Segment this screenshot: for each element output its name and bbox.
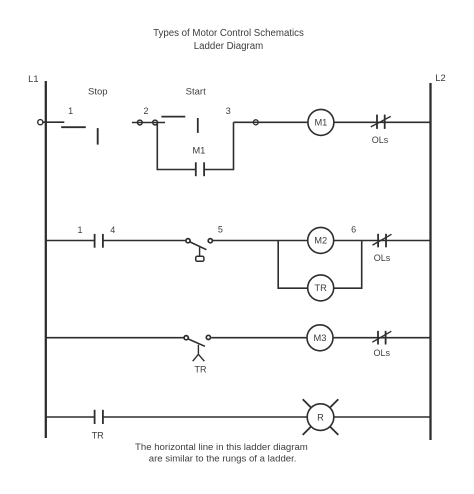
svg-text:1: 1 (68, 106, 73, 116)
node terminal 3 (253, 120, 258, 125)
wire rung2 mid (213, 240, 308, 242)
overload contact OLs rung3 (372, 331, 391, 358)
overload contact OLs rung2 (373, 234, 392, 263)
svg-text:Stop: Stop (88, 87, 108, 98)
wire M1 branch (157, 123, 196, 170)
svg-text:are similar to the rungs of a: are similar to the rungs of a ladder. (149, 454, 297, 465)
pilot light R (303, 399, 339, 435)
wire TR branch (278, 241, 308, 289)
svg-text:The horizontal line in this la: The horizontal line in this ladder diagr… (135, 442, 308, 453)
title (153, 28, 304, 52)
coil M1 (308, 109, 334, 135)
wire rung1 mid (234, 121, 259, 123)
wire rung3 mid (211, 337, 307, 339)
wire rung2 left (46, 240, 95, 242)
svg-text:R: R (317, 412, 324, 422)
flow switch 5 (186, 239, 213, 262)
contact M1 aux bars (196, 162, 204, 176)
coil M2 (308, 227, 334, 253)
svg-text:OLs: OLs (372, 135, 389, 145)
svg-text:M1: M1 (314, 118, 327, 128)
svg-text:OLs: OLs (373, 348, 390, 358)
svg-text:L2: L2 (435, 72, 445, 83)
start terminal circle 2 (137, 120, 142, 125)
node terminal 1 (38, 120, 43, 125)
wire rung2 to switch (103, 240, 185, 242)
wire to coil M1 (259, 121, 308, 123)
svg-text:6: 6 (351, 225, 356, 235)
stop pushbutton terminal bar (97, 128, 99, 145)
wire rung1 right (334, 121, 430, 123)
svg-text:5: 5 (218, 225, 223, 235)
wire start stub (132, 122, 165, 124)
svg-text:1: 1 (77, 225, 82, 235)
overload contact OLs rung1 (371, 115, 391, 145)
svg-text:M1: M1 (192, 145, 205, 156)
svg-text:4: 4 (110, 225, 115, 235)
wire rung4 right (334, 416, 430, 418)
svg-text:L1: L1 (28, 73, 38, 84)
rail L2 (431, 72, 446, 440)
svg-text:OLs: OLs (374, 253, 391, 263)
rail L1 (28, 73, 46, 438)
wire rung4 left (46, 416, 94, 418)
svg-text:TR: TR (195, 365, 207, 375)
stop pushbutton blade (61, 126, 86, 128)
contact bars rung2 (95, 234, 103, 248)
wire rung2 right (334, 240, 430, 242)
svg-text:Types of Motor Control Schemat: Types of Motor Control Schematics (153, 28, 304, 39)
svg-text:2: 2 (143, 106, 148, 116)
wire rung3 right (333, 337, 430, 339)
caption (135, 442, 308, 465)
wire TR branch right (334, 241, 362, 289)
coil M3 (307, 325, 333, 351)
svg-text:3: 3 (226, 106, 231, 116)
timed contact TR rung3 (184, 335, 210, 374)
start terminal circle inner (153, 120, 158, 125)
wire rung4 mid (103, 416, 307, 418)
svg-text:M3: M3 (314, 333, 327, 343)
svg-text:Ladder Diagram: Ladder Diagram (194, 41, 263, 52)
start pushbutton blade (161, 116, 185, 118)
contact TR rung4 bars (95, 410, 103, 424)
svg-text:TR: TR (92, 431, 105, 441)
start pushbutton bar (197, 118, 199, 133)
coil TR (308, 275, 334, 301)
wire rung3 left (46, 337, 184, 339)
svg-text:Start: Start (186, 87, 206, 98)
svg-text:M2: M2 (314, 236, 327, 246)
wire M1 branch right (204, 122, 233, 169)
wire rung1 left stub (43, 121, 65, 123)
svg-text:TR: TR (314, 283, 327, 293)
